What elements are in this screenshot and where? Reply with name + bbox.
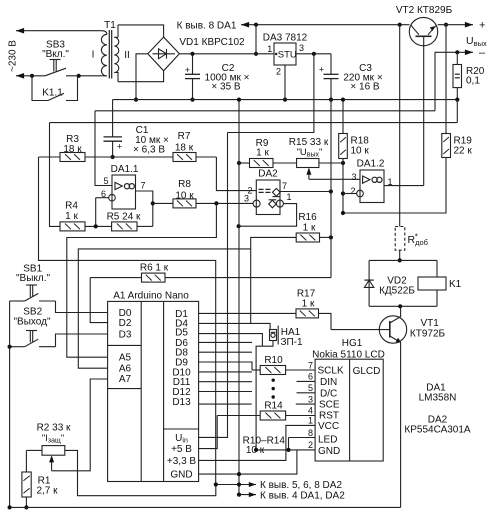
node junction strobe line1: [214, 482, 218, 486]
svg-text:R4: R4: [65, 201, 78, 212]
svg-text:1: 1: [287, 192, 292, 202]
svg-text:STU: STU: [278, 50, 297, 61]
wire relay loop bottom: [369, 305, 437, 307]
wire DA2 pin7: [280, 191, 331, 193]
wire D11 stub: [199, 381, 252, 383]
node junction SB2 left: [8, 345, 12, 349]
svg-text:4: 4: [308, 405, 313, 415]
node junction C1 bottom: [111, 155, 115, 159]
node junction R16 right: [329, 235, 333, 239]
svg-text:RST: RST: [319, 411, 339, 422]
svg-text:+: +: [185, 65, 190, 75]
svg-text:КД522Б: КД522Б: [379, 286, 415, 297]
svg-text:R6 1 к: R6 1 к: [140, 263, 169, 274]
svg-text:КР554СА301А: КР554СА301А: [404, 425, 471, 436]
resistor Rdob: [395, 227, 405, 251]
wire 12V down from DA3 output: [228, 54, 314, 133]
svg-text:2,7 к: 2,7 к: [36, 486, 58, 497]
svg-text:6: 6: [308, 372, 313, 382]
svg-text:2: 2: [350, 186, 355, 196]
controller A1 box: [108, 301, 199, 481]
wire D12 stub: [199, 391, 252, 393]
capacitor C2: [192, 54, 194, 75]
wire HA1 minus to GND row: [256, 341, 273, 450]
node junction column rail: [237, 98, 241, 102]
trimmer R2: [42, 446, 65, 456]
trimmer R15 wiper: [308, 170, 310, 180]
svg-text:2: 2: [276, 67, 281, 77]
op-amp DA1.2 box: [360, 170, 384, 203]
svg-text:VT1: VT1: [421, 318, 440, 329]
node junction C3 bottom: [329, 98, 333, 102]
wire VT1 emitter to bottom rail: [400, 342, 402, 507]
wire raw plus top rail: [256, 24, 409, 26]
svg-text:VD1 КВРС102: VD1 КВРС102: [179, 37, 245, 48]
svg-text:GND: GND: [170, 470, 192, 481]
node junction SB3 right: [77, 74, 81, 78]
wire D9 to R10: [199, 362, 252, 370]
svg-text:+5 В: +5 В: [171, 444, 192, 455]
arrow to DA1 pin8: [241, 24, 256, 26]
wire supply arrows line2: [239, 494, 256, 496]
pin 6 DIN: [297, 380, 316, 382]
node junction R8 right: [214, 201, 218, 205]
arrow mains bottom: [16, 73, 24, 79]
switch SB3: [50, 59, 61, 61]
wire R8 node to A5: [67, 203, 217, 357]
svg-text:SCLK: SCLK: [318, 366, 344, 377]
svg-text:DA1.1: DA1.1: [111, 164, 139, 175]
node junction line1: [237, 482, 241, 486]
pin 2 GND: [256, 449, 315, 451]
wire bridge left corner to minus rail: [136, 54, 148, 100]
resistor R14: [217, 415, 260, 417]
svg-text:DA2: DA2: [258, 169, 278, 180]
wire DA1.1 pin6: [96, 197, 109, 199]
wire DA1.1 pin7 output: [136, 191, 153, 226]
capacitor C3: [330, 54, 332, 75]
svg-text:1 к: 1 к: [302, 299, 315, 310]
wire secondary bottom to bridge: [118, 71, 164, 82]
wire R20 bottom to sense bus: [456, 100, 458, 123]
trimmer R15: [297, 159, 319, 168]
comparator DA2 box: [256, 180, 280, 215]
resistor R20: [456, 52, 458, 64]
arrow mains top: [16, 28, 24, 34]
svg-text:1: 1: [308, 416, 313, 426]
diode VD2: [368, 260, 370, 306]
svg-text:R14: R14: [264, 401, 283, 412]
node junction raw plus DA3 input: [254, 23, 258, 27]
svg-text:22 к: 22 к: [454, 146, 473, 157]
wire DA1.1 pin5 from minus bus: [95, 111, 112, 186]
switch SB1: [26, 284, 37, 286]
svg-text:+: +: [117, 142, 122, 152]
svg-text:II: II: [124, 50, 130, 61]
transistor VT2: [409, 17, 437, 45]
svg-text:+: +: [319, 65, 324, 75]
wire supply arrows line1: [216, 484, 256, 486]
svg-text:I: I: [92, 50, 95, 61]
svg-text:КТ972Б: КТ972Б: [410, 329, 446, 340]
wire D10 stub: [199, 371, 252, 373]
transformer T1 secondary winding II: [117, 25, 119, 37]
svg-text:K1: K1: [449, 279, 462, 290]
svg-text:D3: D3: [119, 330, 132, 341]
rectifier VD1 diode symbol: [153, 53, 176, 55]
node junction R20 top: [455, 50, 459, 54]
svg-text:GND: GND: [318, 446, 340, 457]
relay contact K1.1: [32, 76, 48, 101]
svg-text:R8: R8: [178, 179, 191, 190]
node junction DA2 pin7 ground column: [329, 189, 333, 193]
resistor R7: [113, 156, 173, 158]
resistor R3: [39, 156, 61, 158]
svg-text:R10: R10: [264, 355, 283, 366]
node junction SB3 left: [30, 74, 34, 78]
node junction Rdob relay: [398, 258, 402, 262]
svg-text:DIN: DIN: [320, 377, 337, 388]
svg-text:R15 33 к: R15 33 к: [289, 137, 329, 148]
svg-text:~230 В: ~230 В: [8, 40, 19, 72]
svg-text:R7: R7: [178, 131, 191, 142]
svg-text:D/C: D/C: [320, 388, 337, 399]
svg-text:+: +: [479, 19, 485, 31]
resistor R1: [25, 450, 27, 472]
node junction R20 bottom: [455, 98, 459, 102]
wire R18 R19 bottom bus: [343, 212, 446, 214]
pin 3 SCE: [296, 403, 315, 405]
wire left rail: [9, 301, 11, 507]
wire mains bottom: [16, 75, 45, 77]
wire DA1.2 pin1 to VT2 base: [384, 185, 424, 187]
wire R3 left to D9 column: [39, 157, 216, 485]
wire R2 right to strobe column: [65, 450, 216, 495]
node junction column GND row: [237, 472, 241, 476]
svg-text:DA3 7812: DA3 7812: [263, 33, 308, 44]
svg-text:HG1: HG1: [342, 338, 363, 349]
wire VT1 collector: [400, 306, 402, 317]
svg-text:ЗП-1: ЗП-1: [280, 337, 303, 348]
relay K1 coil: [436, 260, 438, 277]
resistor R16: [251, 237, 297, 323]
node junction left rail bottom: [8, 505, 12, 509]
wire DA3 output rail: [296, 53, 331, 55]
transformer T1 core: [108, 30, 110, 79]
svg-text:8: 8: [308, 428, 313, 438]
wire +3.3V to LCD VCC: [199, 425, 316, 460]
wire bottom ground rail: [10, 506, 401, 508]
node junction VT1 collector: [398, 304, 402, 308]
rectifier VD1 bridge diamond: [148, 37, 180, 71]
svg-text:1 к: 1 к: [65, 211, 78, 222]
wire D8 stub: [199, 351, 252, 353]
op-amp DA1.1 box: [112, 175, 136, 209]
wire relay loop top: [369, 259, 437, 261]
regulator DA3 box: [274, 43, 296, 65]
display HG1 box: [315, 359, 383, 461]
wire current sense bus: [50, 122, 458, 124]
svg-text:7: 7: [141, 181, 146, 191]
node junction R18 bottom DA1.2 pin2: [341, 191, 345, 195]
svg-text:VCC: VCC: [318, 421, 339, 432]
svg-text:7: 7: [282, 181, 287, 191]
svg-text:10 к: 10 к: [351, 146, 370, 157]
wire ground column C3 to R6: [330, 100, 332, 278]
node junction R1 bottom: [24, 505, 28, 509]
svg-text:SCE: SCE: [319, 400, 340, 411]
wire D13 stub: [199, 403, 252, 405]
svg-text:18 к: 18 к: [175, 143, 194, 154]
wire Rdob riser: [399, 25, 401, 227]
switch SB2: [26, 330, 37, 332]
resistor R19: [442, 134, 451, 158]
wire output minus: [435, 52, 473, 111]
svg-text:LM358N: LM358N: [419, 393, 457, 404]
svg-text:1: 1: [267, 44, 272, 54]
node junction C2 top: [190, 52, 194, 56]
svg-text:A1 Arduino Nano: A1 Arduino Nano: [113, 291, 189, 302]
svg-text:3: 3: [299, 43, 304, 53]
node junction DA3 pin2: [283, 98, 287, 102]
svg-text:D13: D13: [172, 397, 191, 408]
svg-text:1 к: 1 к: [303, 223, 316, 234]
resistor R9: [239, 162, 250, 164]
wire DA2 pin1 loop: [239, 204, 297, 227]
node junction line2: [237, 493, 241, 497]
capacitor C1: [112, 100, 114, 137]
wire mains top: [16, 30, 102, 32]
node junction pin7 R8: [151, 201, 155, 205]
node junction R4 R5 pin6: [94, 224, 98, 228]
svg-text:5: 5: [308, 383, 313, 393]
svg-text:"Вкл.": "Вкл.": [42, 49, 69, 60]
svg-text:A7: A7: [119, 374, 132, 385]
svg-text:3: 3: [244, 194, 249, 204]
node junction raw plus to Rdob: [398, 23, 402, 27]
svg-text:К выв. 4 DA1, DA2: К выв. 4 DA1, DA2: [260, 490, 345, 501]
svg-text:–: –: [479, 47, 486, 59]
resistor R4: [50, 123, 61, 227]
node ellipsis R11-R13: [272, 379, 275, 382]
wire VT2 base down: [423, 36, 425, 185]
wire R16 node to A6: [78, 249, 250, 368]
svg-text:+3,3 В: +3,3 В: [167, 456, 197, 467]
svg-text:5: 5: [103, 176, 108, 186]
resistor R6: [90, 277, 141, 279]
wire +5V riser to R14: [199, 416, 218, 449]
svg-text:A6: A6: [119, 364, 132, 375]
wire ground rail: [113, 99, 458, 101]
svg-text:T1: T1: [104, 20, 116, 31]
node junction bridge minus: [134, 98, 138, 102]
svg-text:18 к: 18 к: [63, 144, 82, 155]
svg-text:"Выход": "Выход": [13, 317, 50, 328]
svg-text:GLCD: GLCD: [353, 366, 381, 377]
wire DA3 pin2 to ground rail: [284, 65, 286, 100]
svg-text:× 16 В: × 16 В: [350, 82, 380, 93]
buzzer HA1: [270, 330, 277, 341]
svg-text:LED: LED: [318, 435, 337, 446]
pin 5 D/C: [297, 392, 316, 394]
svg-text:К выв. 8 DA1: К выв. 8 DA1: [177, 21, 237, 32]
wire Uin from 12V: [199, 133, 228, 438]
resistor R10: [252, 369, 260, 371]
resistor R17: [199, 312, 296, 314]
node junction R15 right R18: [341, 161, 345, 165]
wire output plus: [438, 24, 473, 26]
transformer T1 primary winding I: [102, 31, 107, 35]
svg-text:R5 24 к: R5 24 к: [107, 212, 141, 223]
wire rectifier plus rail: [179, 53, 274, 55]
node junction R18 top: [341, 98, 345, 102]
node junction plus output R19: [444, 23, 448, 27]
svg-text:R2 33 к: R2 33 к: [37, 423, 71, 434]
svg-text:3: 3: [351, 172, 356, 182]
svg-text:× 6,3 В: × 6,3 В: [133, 145, 165, 156]
svg-text:3: 3: [308, 395, 313, 405]
resistor R8: [153, 202, 173, 204]
svg-text:10 к: 10 к: [175, 191, 194, 202]
svg-text:0,1: 0,1: [466, 76, 480, 87]
pin 8 LED: [289, 437, 316, 439]
wire GND to LCD GND: [199, 450, 297, 474]
wire D5: [199, 334, 263, 347]
node junction pin1 loop: [237, 224, 241, 228]
svg-text:DA1.2: DA1.2: [357, 159, 385, 170]
svg-text:2: 2: [308, 440, 313, 450]
node junction bus213: [341, 211, 345, 215]
svg-text:1 к: 1 к: [256, 148, 269, 159]
svg-text:*: *: [415, 233, 418, 242]
wire minus sense bus: [95, 110, 435, 112]
node junction R9 left: [237, 161, 241, 165]
node junction DA3 output branch: [312, 52, 316, 56]
svg-text:R16: R16: [298, 212, 317, 223]
node junction LED GND: [286, 448, 290, 452]
svg-text:VT2 КТ829Б: VT2 КТ829Б: [396, 5, 453, 16]
svg-text:A5: A5: [119, 353, 132, 364]
wire A7 to R2 wiper: [52, 379, 108, 471]
wire R6 left to D2: [90, 278, 107, 323]
wire D6 stub: [199, 341, 252, 343]
resistor R5: [112, 222, 137, 231]
svg-text:"Выкл.": "Выкл.": [16, 273, 51, 284]
node junction C2 bottom: [190, 98, 194, 102]
wire VT1 base: [331, 329, 390, 331]
svg-text:K1.1: K1.1: [42, 88, 63, 99]
resistor R18: [342, 100, 344, 134]
transistor VT1: [379, 316, 406, 343]
svg-text:× 35 В: × 35 В: [211, 82, 241, 93]
wire R7 to DA2 pin2: [216, 157, 256, 191]
wire D4 to HA1: [199, 323, 271, 329]
wire DA2 output column: [238, 100, 240, 495]
wire DA1.2 pin2: [343, 193, 357, 195]
svg-text:D2: D2: [119, 318, 132, 329]
trimmer R2 wiper arrow: [51, 458, 53, 471]
svg-text:7: 7: [308, 360, 313, 370]
wire secondary top to bridge: [118, 25, 164, 37]
wire R19 riser: [445, 25, 447, 134]
